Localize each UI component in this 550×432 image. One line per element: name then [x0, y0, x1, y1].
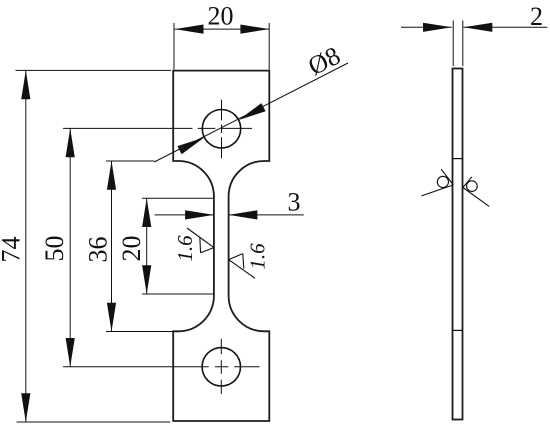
svg-text:20: 20 [117, 236, 146, 262]
dimension 20 (neck straight) extension line bottom [142, 293, 214, 295]
hole bottom (Ø8) [202, 348, 240, 386]
svg-text:1.6: 1.6 [246, 243, 270, 270]
side view edge line upper (fillet tangent level) [453, 158, 463, 160]
dimension 3 right arrow pointing left [229, 210, 258, 219]
leader Ø8 upper-right arrow [239, 103, 266, 120]
dimension 36 extension line bottom [106, 331, 178, 333]
leader Ø8 lower-left arrow [177, 137, 204, 154]
dimension 3 left arrow pointing right [185, 210, 214, 219]
roughness symbol right upper side [229, 254, 243, 260]
roughness symbol left (1.6) tail [187, 228, 214, 248]
leader line Ø8 [154, 63, 348, 162]
dimension 36 bottom arrow [107, 303, 116, 332]
centerline top hole vertical [221, 100, 223, 159]
side no-machining symbol left upper side [441, 169, 453, 185]
dimension 2 right arrow pointing left [464, 23, 493, 32]
dimension 20 (top width) right arrow [240, 25, 269, 34]
dimension 74 bottom arrow [21, 393, 30, 422]
dimension 36 line [111, 161, 113, 332]
hole top (Ø8) [202, 110, 240, 148]
side no-machining symbol left tail [422, 185, 454, 196]
side view outline [453, 69, 463, 420]
side no-machining symbol left circle [437, 176, 448, 187]
dimension 50 top arrow [66, 128, 75, 157]
side view edge line lower (fillet tangent level) [453, 329, 463, 331]
dimension 36 extension line top [106, 160, 155, 162]
side no-machining symbol right upper side [463, 177, 472, 188]
roughness symbol left closing edge [199, 237, 202, 253]
dimension 74 extension line top [16, 69, 172, 71]
roughness symbol right closing edge [243, 254, 244, 269]
roughness symbol left lower side [201, 248, 214, 253]
svg-text:3: 3 [288, 188, 301, 217]
dimension 74 line [25, 70, 27, 422]
dimension 20 (neck) top arrow [142, 198, 151, 227]
dimension 2 left arrow pointing right [423, 23, 452, 32]
svg-text:20: 20 [208, 2, 234, 31]
dimension 20 (top width) line [175, 28, 270, 30]
dimension 20 (neck) bottom arrow [142, 265, 151, 294]
dimension 2 line right part [464, 26, 548, 28]
dimension 20 (neck straight) line [146, 198, 148, 294]
centerline top hole horizontal / extension line of dim 50 top [63, 127, 252, 129]
dimension 3 (neck width) line left part [155, 214, 214, 216]
svg-text:50: 50 [40, 236, 69, 262]
roughness symbol right (1.6) tail [229, 260, 255, 279]
svg-text:74: 74 [0, 237, 26, 263]
dimension 74 extension line bottom [17, 421, 171, 423]
dimension 74 top arrow [21, 70, 30, 99]
side no-machining symbol right tail [463, 188, 489, 207]
dimension 50 bottom arrow [66, 338, 75, 367]
part outline (front view, dog-bone plate) [173, 71, 269, 421]
svg-text:2: 2 [530, 2, 543, 31]
centerline bottom hole horizontal / extension line of dim 50 bottom [63, 366, 260, 368]
centerline bottom hole vertical [220, 339, 222, 394]
dimension 20 (top width) left arrow [175, 25, 204, 34]
dimension 36 top arrow [107, 161, 116, 190]
dimension 2 extension lines [453, 21, 463, 67]
dimension 2 line left part [401, 26, 452, 28]
dimension 50 line [69, 128, 71, 366]
dimension 20 (top width) extension lines [174, 23, 269, 70]
dimension 3 line right part [229, 214, 304, 216]
dimension 20 (neck straight) extension line top [142, 197, 214, 199]
side no-machining symbol right circle [467, 181, 478, 192]
svg-text:1.6: 1.6 [173, 235, 197, 262]
svg-text:36: 36 [84, 237, 113, 263]
